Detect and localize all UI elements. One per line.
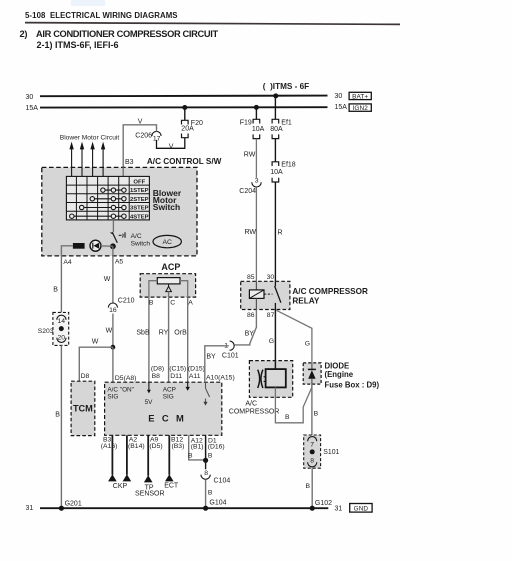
svg-text:B: B (208, 453, 213, 460)
IGN2 box (349, 104, 371, 112)
wire G from relay 87 to compressor (269, 310, 276, 361)
svg-text:Ef18: Ef18 (281, 162, 296, 169)
svg-text:31: 31 (26, 505, 34, 512)
svg-text:AIR CONDITIONER COMPRESSOR CIR: AIR CONDITIONER COMPRESSOR CIRCUIT (36, 29, 218, 39)
bus rail 15A (40, 106, 328, 108)
svg-text:E C M: E C M (148, 413, 186, 424)
svg-text:B: B (149, 299, 154, 306)
connector C101 pin 1 (222, 341, 239, 359)
svg-text:30: 30 (26, 94, 34, 101)
svg-text:15A: 15A (335, 104, 348, 111)
svg-text:RW: RW (244, 152, 256, 159)
splice S203 (38, 312, 69, 345)
GND box (350, 504, 372, 513)
svg-text:C: C (170, 299, 175, 306)
DIODE label (325, 361, 380, 389)
bus rail 30 (40, 95, 328, 98)
svg-text:(A16): (A16) (101, 443, 118, 450)
splice S101 (304, 435, 340, 468)
svg-text:BY: BY (245, 330, 255, 337)
ECM box (105, 382, 222, 435)
svg-text:16: 16 (109, 307, 117, 314)
ACP potentiometer (157, 278, 180, 284)
svg-text:B3: B3 (125, 159, 134, 166)
svg-text:BY: BY (206, 353, 216, 360)
svg-text:5V: 5V (145, 399, 154, 406)
ECM bottom pin label A12 (B1) (191, 437, 204, 450)
svg-text:D5(A8): D5(A8) (115, 375, 137, 382)
ECM top pin label A10(A15) (206, 375, 235, 382)
svg-text:C104: C104 (214, 478, 231, 485)
wire junction down to pin A5 (112, 246, 114, 256)
wire B from A4 down to splice S203 (53, 256, 61, 313)
ACP pin labels (149, 299, 193, 306)
svg-text:A/C: A/C (245, 401, 257, 408)
svg-text:5-108 ELECTRICAL WIRING DIAGR: 5-108 ELECTRICAL WIRING DIAGRAMS (25, 11, 178, 20)
svg-text:B8: B8 (152, 373, 161, 380)
svg-text:B: B (314, 411, 319, 418)
svg-text:31: 31 (335, 506, 343, 513)
svg-text:G102: G102 (315, 500, 332, 507)
svg-text:TCM: TCM (73, 403, 93, 413)
ACP wiper arrow (166, 284, 172, 297)
rail 15A right label (335, 104, 348, 111)
diode D9 symbol (308, 363, 316, 387)
A/C CONTROL S/W title (147, 157, 222, 166)
wire junction to connector C104 (205, 460, 207, 469)
wire CKP sensor pin B3 (108, 435, 117, 481)
svg-text:G: G (269, 338, 274, 345)
svg-text:86: 86 (247, 312, 255, 319)
pin A4 label (63, 259, 72, 266)
wire RW from C204 to relay pin 85 (245, 187, 257, 281)
switch row label 4STEP (130, 214, 149, 220)
svg-text:GND: GND (354, 505, 369, 512)
ECM internal A11 down arrow (186, 382, 190, 391)
A/C COMPRESSOR RELAY label (292, 287, 368, 306)
svg-text:A/C: A/C (131, 233, 142, 240)
rail 30 left label (26, 94, 34, 101)
svg-text:(D8): (D8) (151, 366, 164, 373)
svg-text:Ef1: Ef1 (281, 119, 292, 126)
svg-text:2STEP: 2STEP (130, 197, 149, 203)
svg-text:17: 17 (153, 136, 161, 143)
contacts row 2STEP (90, 197, 126, 201)
switch row label 3STEP (130, 206, 149, 212)
wire W branch to TCM pin D8 (79, 339, 113, 382)
wire B3 into switch grid (122, 167, 124, 176)
svg-text:G201: G201 (65, 500, 82, 507)
svg-text:C210: C210 (118, 297, 135, 304)
AC oval indicator (153, 235, 181, 247)
wire TP sensor pin A9 (144, 435, 153, 482)
svg-text:A4: A4 (63, 259, 72, 266)
svg-text:A10(A15): A10(A15) (206, 375, 235, 382)
wire W junction to ECM pin D5(A8) (112, 347, 114, 382)
rail 31 right label (335, 506, 343, 513)
switch row label OFF (133, 180, 145, 186)
wire grid output to A/C switch (112, 220, 114, 232)
svg-text:W: W (106, 327, 113, 334)
relay switch blade (275, 281, 281, 309)
svg-text:(C15): (C15) (169, 366, 186, 373)
junction dot on W wire (111, 345, 116, 350)
connector C104 pin 8 (201, 470, 230, 484)
ECM bottom pin label A2 (B14) (128, 437, 145, 450)
svg-text:C204: C204 (239, 188, 256, 195)
svg-text:85: 85 (247, 274, 255, 281)
title line 2 (37, 40, 119, 50)
svg-text:W: W (92, 339, 99, 346)
svg-text:SENSOR: SENSOR (135, 490, 165, 497)
indicator lamp (LED) (90, 240, 101, 251)
wire CKP sensor pin A2 (123, 435, 132, 481)
svg-text:C101: C101 (222, 352, 239, 359)
svg-text:A: A (188, 299, 193, 306)
svg-text:Blower Motor Circuit: Blower Motor Circuit (60, 134, 120, 141)
svg-text:A11: A11 (189, 373, 201, 380)
junction on rail 15A for F20 (182, 105, 187, 110)
svg-text:20: 20 (58, 335, 66, 342)
svg-text:(D15): (D15) (188, 366, 205, 373)
svg-text:(B1): (B1) (191, 443, 204, 450)
ACP pin A wire inside box (180, 281, 188, 297)
svg-text:W: W (104, 276, 111, 283)
BAT+ box (349, 92, 371, 100)
switch row label 1STEP (130, 188, 149, 194)
svg-text:C206: C206 (135, 132, 152, 139)
svg-text:30: 30 (267, 274, 275, 281)
svg-text:CKP: CKP (113, 483, 128, 490)
ACP label (161, 262, 180, 272)
svg-text:D11: D11 (170, 373, 182, 380)
wire RY from ACP C to ECM D11 (159, 297, 169, 382)
wire resistor to corner and down to pin A4 (61, 246, 73, 256)
svg-text:2-1) ITMS-6F, IEFI-6: 2-1) ITMS-6F, IEFI-6 (37, 40, 119, 50)
wire ECT sensor pin B12 (165, 435, 174, 481)
ECM bottom pin label A9 (D5) (149, 437, 162, 450)
svg-text:IGN2: IGN2 (353, 105, 369, 112)
fuse Ef18 10A (270, 162, 296, 182)
svg-text:S101: S101 (323, 449, 339, 456)
junction dot A12/D1 (203, 458, 208, 463)
ground G104 (203, 500, 227, 511)
wire V from C206 up-left down to pin B3 (123, 119, 156, 168)
svg-text:A/C "ON": A/C "ON" (107, 386, 134, 393)
wire G from relay 87 to diode (276, 310, 312, 363)
svg-text:S203: S203 (38, 328, 54, 335)
Blower Motor Circuit label (60, 134, 120, 141)
svg-text:(B14): (B14) (128, 443, 145, 450)
ECM internal A/C ON SIG (107, 386, 134, 400)
wire rail15A down to fuse F20 (184, 108, 186, 121)
relay coil-switch dashed link (264, 293, 273, 295)
ACP box (140, 274, 195, 297)
page header text (25, 11, 178, 20)
svg-text:B: B (53, 286, 58, 293)
svg-text:ACP: ACP (161, 262, 180, 272)
svg-text:2): 2) (20, 29, 28, 39)
wire rail30 down to fuse Ef1 (274, 96, 276, 120)
svg-text:F19: F19 (240, 120, 252, 127)
connector C206 pin 17 (135, 131, 161, 142)
svg-text:V: V (138, 119, 143, 126)
svg-text:B: B (188, 453, 193, 460)
ACP pin B wire inside box (149, 281, 157, 297)
ECT label (164, 482, 179, 489)
blower motor switch grid (66, 176, 149, 220)
connector C204 pin 3 (239, 178, 261, 195)
wire B from A12 to junction (188, 435, 206, 460)
svg-text:COMPRESSOR: COMPRESSOR (229, 409, 280, 416)
svg-text:(Engine: (Engine (325, 370, 354, 379)
TP SENSOR label (135, 484, 165, 497)
wire W from C210 to junction (106, 314, 113, 348)
rail 30 right label (335, 93, 343, 100)
ECM internal A10 switch and ground arrow (203, 382, 209, 405)
wire B from D1 to junction (206, 435, 213, 460)
connector C210 pin 16 (108, 297, 134, 314)
svg-text:7: 7 (310, 441, 314, 448)
wire rail15A down to fuse F19 (255, 107, 257, 119)
wire BY from C101 to ECM A10 (205, 346, 229, 382)
ECM internal ACP SIG (163, 386, 176, 400)
title line 1 (20, 29, 219, 39)
svg-text:B: B (285, 414, 290, 421)
svg-text:30: 30 (335, 93, 343, 100)
wire B from C104 to ground G104 (206, 479, 213, 508)
relay pin labels 86 87 (247, 312, 275, 319)
diode box (303, 363, 321, 384)
fuse F19 10A (240, 119, 265, 138)
A/C CONTROL S/W box (42, 167, 197, 256)
svg-text:( )ITMS - 6F: ( )ITMS - 6F (263, 82, 309, 91)
ground rail 31 (40, 507, 328, 509)
svg-text:(D5): (D5) (149, 443, 162, 450)
wire W from A5 down to connector C210 (104, 256, 113, 303)
TCM box (71, 381, 95, 435)
wire R from Ef18 to relay pin 30 (275, 182, 282, 281)
svg-text:20A: 20A (181, 126, 194, 133)
switch row label 2STEP (130, 197, 149, 203)
ECM bottom pin label D1 (D16) (208, 437, 225, 450)
pin A5 label (115, 258, 124, 265)
svg-text:1STEP: 1STEP (130, 188, 149, 194)
svg-text:V: V (169, 143, 174, 150)
svg-text:ECT: ECT (164, 482, 179, 489)
svg-text:87: 87 (267, 312, 275, 319)
svg-text:Switch: Switch (153, 202, 180, 212)
ECM bottom pin label B3 (A16) (101, 437, 118, 450)
svg-text:OrB: OrB (174, 330, 187, 337)
wire B from compressor to diode wire (275, 387, 312, 423)
wire B from S203 down to ground G201 (55, 345, 61, 508)
compressor pulley (258, 370, 266, 388)
pin D8 label (81, 373, 90, 380)
svg-text:R: R (278, 230, 283, 237)
arrow up blower wire 3 (90, 142, 94, 177)
ground G102 (310, 500, 333, 511)
svg-text:B: B (306, 483, 311, 490)
wire B from S101 to ground G102 (306, 468, 313, 508)
ECM top pin label (C15) D11 (169, 366, 186, 380)
Blower Motor Switch label (153, 188, 182, 212)
svg-text:(B3): (B3) (172, 443, 185, 450)
svg-text:14: 14 (58, 318, 66, 325)
wire V from F20 down-left to connector C206 (157, 138, 185, 151)
junction on rail 15A for F19 (254, 105, 259, 110)
wire RW from F19 to connector C204 (244, 139, 257, 178)
ECM bottom pin label B12 (B3) (171, 437, 184, 450)
arrow up blower wire 4 (101, 142, 105, 177)
svg-text:Switch: Switch (131, 241, 151, 248)
svg-text:G104: G104 (209, 500, 226, 507)
contacts row 1STEP (101, 188, 126, 192)
header rule (25, 23, 400, 25)
compressor clutch coil body (266, 361, 286, 388)
svg-text:10A: 10A (252, 126, 265, 133)
svg-text:(D16): (D16) (208, 444, 225, 451)
relay coil (249, 281, 264, 309)
svg-text:D8: D8 (81, 373, 90, 380)
node ITMS-6F label (263, 82, 309, 91)
svg-text:AC: AC (162, 239, 172, 246)
svg-text:G: G (305, 341, 310, 348)
relay pin labels 85 30 (247, 274, 274, 281)
junction dot below A/C switch (110, 243, 116, 249)
contacts row 3STEP (80, 205, 127, 209)
svg-text:A5: A5 (115, 258, 124, 265)
ECM internal 5V arrow (145, 382, 154, 406)
svg-text:8: 8 (204, 470, 208, 477)
wire BY from relay 86 to connector C101 (235, 310, 257, 345)
svg-text:A/C COMPRESSOR: A/C COMPRESSOR (292, 287, 368, 296)
svg-text:4STEP: 4STEP (130, 214, 149, 220)
A/C compressor relay box (241, 281, 290, 309)
ECM top pin label (D15) A11 (188, 366, 205, 380)
wire Ef1 to Ef18 (274, 139, 276, 162)
A/C Switch label (131, 233, 151, 247)
svg-text:A/C CONTROL S/W: A/C CONTROL S/W (147, 157, 222, 166)
junction on rail 30 at ITMS feed (273, 93, 278, 98)
fuse Ef1 80A (270, 119, 292, 138)
rail 31 left label (26, 505, 34, 512)
svg-text:SIG: SIG (107, 394, 118, 401)
svg-text:Fuse Box : D9): Fuse Box : D9) (325, 381, 380, 390)
ECM top pin label D5(A8) (115, 375, 137, 382)
svg-text:SIG: SIG (163, 394, 174, 401)
svg-text:ACP: ACP (163, 386, 176, 393)
svg-text:OFF: OFF (133, 180, 145, 186)
svg-text:3STEP: 3STEP (130, 206, 149, 212)
svg-text:8: 8 (310, 458, 314, 465)
rail 15A left label (26, 105, 39, 112)
A/C switch blade (111, 232, 126, 242)
svg-text:3: 3 (255, 178, 259, 185)
svg-text:80A: 80A (270, 126, 283, 133)
resistor (filled) (73, 243, 85, 249)
arrow up blower wire 1 (69, 142, 73, 177)
arrow up blower wire 2 (80, 142, 84, 177)
ECM top pin label (D8) B8 (151, 366, 164, 380)
svg-text:RELAY: RELAY (292, 297, 320, 306)
fuse F20 20A (181, 120, 203, 138)
CKP label (113, 483, 128, 490)
wire B from diode to splice S101 (312, 384, 319, 435)
svg-text:RW: RW (245, 229, 257, 236)
svg-text:SbB: SbB (136, 330, 150, 337)
blue highlight smudge top (71, 0, 105, 6)
svg-text:B: B (55, 412, 60, 419)
A/C compressor box (249, 361, 292, 398)
ground G201 (59, 500, 82, 511)
wire SbB from ACP B to ECM B8 (136, 297, 150, 382)
svg-text:15A: 15A (26, 105, 39, 112)
svg-text:RY: RY (159, 330, 169, 337)
svg-text:10A: 10A (270, 169, 283, 176)
A/C COMPRESSOR label (229, 401, 280, 416)
wire lamp to junction (101, 245, 113, 247)
wire OrB from ACP A to ECM A11 (174, 297, 187, 382)
svg-text:B: B (208, 490, 213, 497)
svg-text:BAT+: BAT+ (352, 93, 368, 100)
contacts row 4STEP (70, 214, 127, 218)
